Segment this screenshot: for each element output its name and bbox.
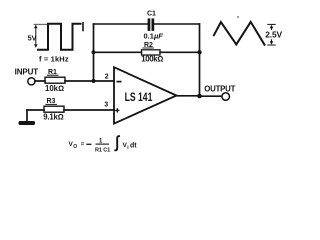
svg-text:9.1kΩ: 9.1kΩ: [43, 113, 63, 122]
square wave input waveform: [38, 24, 81, 50]
resistor R2: [142, 50, 161, 55]
svg-text:dt: dt: [130, 142, 137, 149]
output wire apex to node D: [177, 95, 200, 97]
wire C1 to right feedback corner: [154, 23, 199, 25]
wire R3 to pin 3: [64, 109, 114, 111]
svg-text:OUTPUT: OUTPUT: [204, 85, 235, 94]
2.5V amplitude arrows: [268, 24, 275, 45]
inverting input minus sign: [117, 81, 120, 83]
non-inverting input plus sign: [116, 109, 119, 112]
wire node D to output terminal: [200, 95, 222, 97]
square wave trailing falling edge (faded stub): [82, 23, 84, 31]
svg-text:O: O: [73, 144, 77, 150]
node D output junction: [197, 94, 202, 99]
svg-text:0.1µF: 0.1µF: [144, 31, 164, 40]
wire R1 to node A: [65, 80, 114, 82]
svg-text:100kΩ: 100kΩ: [141, 54, 163, 63]
input terminal: [28, 78, 35, 85]
wire R2 to node C: [160, 51, 200, 53]
formula minus sign: [87, 143, 91, 145]
5V amplitude arrow: [34, 24, 48, 48]
right feedback vertical wire: [199, 24, 201, 96]
svg-text:2: 2: [105, 74, 109, 81]
node C junction R2 right: [197, 50, 201, 54]
node A junction at inverting input: [92, 79, 96, 83]
svg-text:R1 C1: R1 C1: [95, 148, 110, 154]
svg-text:3: 3: [104, 102, 108, 109]
svg-text:INPUT: INPUT: [15, 67, 39, 76]
wire node B to R2: [94, 51, 142, 53]
resistor R3: [44, 106, 64, 112]
output terminal: [222, 93, 230, 101]
fraction bar: [96, 143, 109, 145]
svg-text:10kΩ: 10kΩ: [45, 84, 64, 93]
svg-text:2.5V: 2.5V: [265, 30, 282, 40]
ground: [26, 110, 28, 121]
wire ground to R3: [27, 109, 44, 111]
op-amp U1 LS 141: [114, 67, 177, 123]
node B junction R2 left: [92, 50, 96, 54]
svg-text:=: =: [81, 142, 85, 148]
speck: [237, 16, 238, 17]
svg-text:LS 141: LS 141: [125, 92, 153, 104]
resistor R1: [45, 77, 65, 83]
capacitor C1: [148, 18, 155, 31]
svg-text:C1: C1: [147, 11, 156, 18]
wire top feedback to C1: [94, 23, 148, 25]
svg-text:f = 1kHz: f = 1kHz: [39, 55, 69, 64]
wire input terminal to R1: [35, 80, 45, 82]
svg-text:5V: 5V: [28, 33, 37, 42]
triangle wave output waveform: [214, 22, 265, 45]
left feedback vertical wire: [93, 24, 95, 81]
formula Vo = -1/(R1 C1) integral Vi dt: [69, 133, 138, 154]
